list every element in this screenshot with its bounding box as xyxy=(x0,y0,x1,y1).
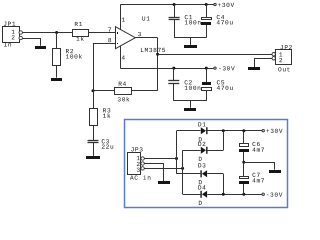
svg-text:4: 4 xyxy=(121,55,125,62)
svg-text:R4: R4 xyxy=(118,81,127,88)
svg-text:3: 3 xyxy=(136,167,140,174)
svg-text:JP2: JP2 xyxy=(280,44,293,51)
svg-text:D4: D4 xyxy=(198,185,207,192)
svg-text:7: 7 xyxy=(108,27,112,34)
svg-text:470u: 470u xyxy=(216,19,233,26)
svg-text:D2: D2 xyxy=(198,141,207,148)
svg-text:JP1: JP1 xyxy=(3,21,16,28)
svg-text:100k: 100k xyxy=(66,54,83,61)
svg-text:470u: 470u xyxy=(217,85,234,92)
svg-text:-30V: -30V xyxy=(218,65,235,72)
svg-text:JP3: JP3 xyxy=(131,146,144,153)
svg-text:D: D xyxy=(198,200,202,207)
svg-text:-30V: -30V xyxy=(266,192,283,199)
svg-text:Out: Out xyxy=(278,66,291,73)
svg-text:AC in: AC in xyxy=(130,175,152,182)
svg-text:+30V: +30V xyxy=(218,2,235,9)
svg-text:LM3875: LM3875 xyxy=(140,47,166,54)
svg-text:U1: U1 xyxy=(142,15,151,22)
svg-text:R1: R1 xyxy=(74,21,83,28)
svg-text:100n: 100n xyxy=(184,19,201,26)
svg-text:30k: 30k xyxy=(117,96,130,103)
svg-text:1k: 1k xyxy=(76,36,85,43)
svg-text:D3: D3 xyxy=(198,162,207,169)
svg-text:22u: 22u xyxy=(101,144,114,151)
svg-text:8: 8 xyxy=(108,37,112,44)
svg-text:2: 2 xyxy=(11,34,15,41)
svg-text:1k: 1k xyxy=(103,113,112,120)
svg-text:D1: D1 xyxy=(198,121,207,128)
svg-text:4m7: 4m7 xyxy=(252,147,265,154)
svg-text:In: In xyxy=(4,42,13,49)
svg-text:3: 3 xyxy=(138,31,142,38)
svg-text:4m7: 4m7 xyxy=(252,177,265,184)
svg-text:+30V: +30V xyxy=(266,128,283,135)
svg-text:2: 2 xyxy=(279,57,283,64)
svg-text:1: 1 xyxy=(121,17,125,24)
svg-text:100n: 100n xyxy=(184,85,201,92)
